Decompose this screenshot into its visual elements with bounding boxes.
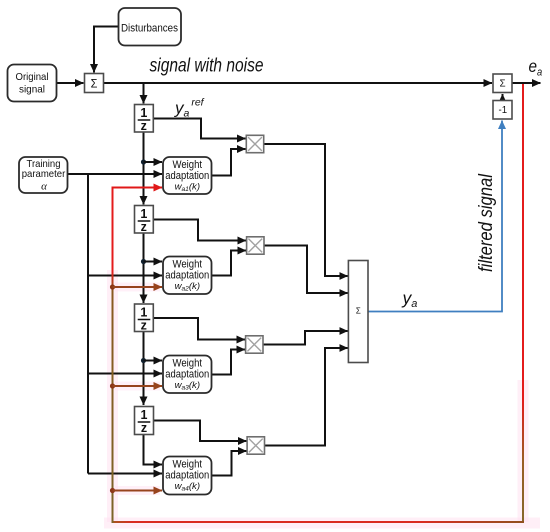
svg-text:Original: Original <box>16 71 49 83</box>
wire: z4 output to multiplier M4 <box>154 421 247 442</box>
svg-text:-1: -1 <box>499 104 508 116</box>
wire: error feedback up left side <box>112 188 114 524</box>
wire: z1 output to multiplier M1 <box>154 119 246 139</box>
block: Weight adaptation W3 <box>163 356 212 394</box>
wire: error feedback down right side <box>522 84 524 521</box>
wire: z2 output to multiplier M2 <box>154 220 247 241</box>
block: Training parameter alpha <box>19 157 68 193</box>
wire: branch to W1 top input <box>144 161 163 163</box>
svg-text:Disturbances: Disturbances <box>121 23 178 35</box>
multiplier M3 <box>246 336 263 353</box>
label: e_a <box>529 56 543 79</box>
wire: Original signal to sum S1 <box>57 82 84 84</box>
wire: W1 output to multiplier M1 <box>212 149 246 176</box>
wire: training branch to W2 middle input <box>88 275 162 277</box>
svg-text:Σ: Σ <box>500 79 506 90</box>
node: feedback junction at W3 <box>110 383 115 388</box>
wire: red feedback into W3 <box>113 385 163 387</box>
wire: red feedback into W2 <box>113 286 163 288</box>
block: Weight adaptation W1 <box>163 157 212 194</box>
block: Weight adaptation W4 <box>163 457 212 495</box>
svg-text:Σ: Σ <box>91 77 98 91</box>
sum S1 <box>85 74 104 93</box>
wire: branch to W3 top input <box>144 360 163 362</box>
label: signal with noise <box>150 56 264 77</box>
svg-text:1: 1 <box>140 106 147 120</box>
multiplier M2 <box>247 237 264 254</box>
svg-text:adaptation: adaptation <box>165 170 209 182</box>
delay block z1 <box>135 105 154 134</box>
wire: delay chain z1 to z2 <box>143 132 145 205</box>
wire: z3 output to multiplier M3 <box>154 318 246 340</box>
wire: blue filtered signal from big sum up to -1 block <box>368 121 502 312</box>
wire: error output e_a <box>512 82 541 84</box>
wire: delay chain z2 to z3 <box>143 234 145 304</box>
wire: branch down from main line into delay z1 <box>143 83 145 104</box>
svg-text:1: 1 <box>140 207 147 221</box>
svg-text:Σ: Σ <box>356 307 361 316</box>
svg-text:adaptation: adaptation <box>165 269 209 281</box>
wire: red feedback into W4 <box>113 490 163 492</box>
delay block z4 <box>135 407 154 436</box>
wire: M1 output to big sum input 1 <box>264 144 348 276</box>
wire: red feedback into W1 <box>112 187 163 189</box>
multiplier M1 <box>246 135 263 152</box>
svg-text:signal with noise: signal with noise <box>150 56 264 77</box>
wire: z4 tail to W4 top input <box>144 435 163 465</box>
svg-text:adaptation: adaptation <box>165 469 209 481</box>
wire: main signal-with-noise line from S1 to right sum <box>104 82 493 84</box>
wire: M2 output to big sum input 2 <box>264 246 348 294</box>
gain block -1 <box>493 101 512 120</box>
delay block z2 <box>135 206 154 235</box>
wire: M4 output to big sum input 4 <box>265 348 348 446</box>
block: Weight adaptation W2 <box>163 257 212 295</box>
svg-text:z: z <box>141 421 147 435</box>
wire: -1 block up into right sum <box>502 94 504 101</box>
svg-text:1: 1 <box>140 306 147 320</box>
svg-text:α: α <box>41 181 47 193</box>
wire: M3 output to big sum input 3 <box>263 331 348 345</box>
svg-text:parameter: parameter <box>22 168 66 180</box>
multiplier M4 <box>247 437 264 454</box>
label: y_a <box>402 288 418 310</box>
block: Original signal <box>8 65 57 102</box>
wire: branch to W2 top input <box>144 261 163 263</box>
svg-text:filtered signal: filtered signal <box>476 173 497 272</box>
sum SR (error sum) <box>493 74 512 93</box>
wire: training branch to W3 middle input <box>88 373 162 375</box>
node: junction on chain feeding W1 <box>141 159 146 164</box>
wire: W4 output to multiplier M4 <box>212 451 247 476</box>
wire: W2 output to multiplier M2 <box>212 251 247 276</box>
node: junction on chain feeding W3 <box>141 358 146 363</box>
wire: training parameter vertical distribution <box>87 174 89 474</box>
big sum block <box>348 261 368 363</box>
svg-text:z: z <box>141 119 147 133</box>
node: feedback junction at W2 <box>110 284 115 289</box>
svg-text:z: z <box>141 220 147 234</box>
svg-text:1: 1 <box>141 408 148 422</box>
node: junction on chain feeding W2 <box>141 259 146 264</box>
svg-text:z: z <box>141 319 147 333</box>
svg-text:adaptation: adaptation <box>165 368 209 380</box>
svg-text:signal: signal <box>19 84 45 96</box>
wire: error feedback along bottom <box>113 521 525 523</box>
label: filtered signal (rotated) <box>476 173 497 272</box>
wire: W3 output to multiplier M3 <box>212 350 246 375</box>
wire: training parameter to W1 middle input <box>68 173 163 175</box>
wire: training branch to W4 middle input <box>88 473 162 475</box>
wire: delay chain z3 to z4 <box>143 332 145 406</box>
wire: Disturbances down into sum S1 <box>94 27 118 73</box>
node: feedback junction at W4 <box>110 488 115 493</box>
block: Disturbances <box>119 8 182 46</box>
delay block z3 <box>135 304 154 333</box>
label: ya ref <box>174 97 205 120</box>
